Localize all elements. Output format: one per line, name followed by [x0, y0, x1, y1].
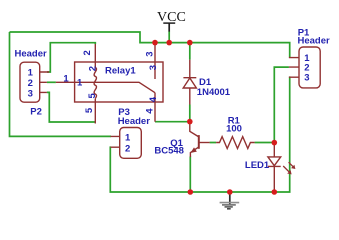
svg-text:2: 2 — [28, 78, 33, 89]
power VCC — [157, 10, 186, 42]
svg-text:Header: Header — [118, 116, 151, 127]
wire P2 pin2 to relay pin1 — [47, 81, 56, 83]
relay Relay1 body — [56, 43, 163, 124]
svg-text:3: 3 — [144, 51, 155, 56]
emitter arrow — [191, 148, 196, 152]
svg-text:1: 1 — [125, 133, 131, 144]
svg-text:4: 4 — [144, 108, 155, 114]
wire D1 vertical segments — [189, 43, 191, 122]
junction dots — [152, 40, 277, 195]
svg-text:1: 1 — [28, 68, 34, 79]
transistor Q1 — [190, 122, 210, 157]
LED LED1 — [268, 143, 294, 192]
svg-text:3: 3 — [148, 65, 159, 70]
header P2 — [20, 62, 49, 102]
node R1 / LED1 / P1 pin2 — [272, 140, 278, 146]
pin 3 lead — [154, 43, 156, 79]
pin 2 lead — [94, 44, 96, 68]
node VCC stem — [166, 40, 172, 46]
wire left vertical to P3 pin1 — [10, 32, 112, 136]
wire VCC rail top-left long segment — [10, 32, 290, 58]
node ground / bottom rail — [227, 189, 233, 195]
svg-text:1: 1 — [77, 77, 83, 88]
svg-text:Relay1: Relay1 — [105, 65, 136, 76]
node LED1 cathode / bottom rail — [272, 189, 278, 195]
svg-text:Header: Header — [298, 36, 331, 47]
svg-text:LED1: LED1 — [245, 160, 270, 171]
svg-text:3: 3 — [28, 88, 33, 99]
pin 1 / armature — [56, 82, 155, 92]
ground — [220, 192, 240, 209]
node D1 top — [187, 40, 193, 46]
wire Q1 base to R1 — [210, 142, 275, 144]
svg-text:5: 5 — [87, 93, 98, 99]
wire P2 pin1 to relay pin2 — [47, 43, 95, 72]
svg-text:100: 100 — [226, 124, 242, 135]
wire Q1 emitter down — [189, 157, 191, 193]
diode D1 — [183, 60, 196, 105]
wire P2 pin3 to relay pin5 — [47, 92, 95, 122]
svg-text:4: 4 — [148, 96, 159, 102]
svg-text:2: 2 — [82, 50, 93, 55]
wire relay pin4 to node D1/Q1 — [155, 121, 190, 123]
wire node R1/LED up to P1 pin2 — [274, 67, 289, 143]
svg-text:BC548: BC548 — [154, 146, 184, 157]
svg-text:P2: P2 — [30, 107, 42, 118]
svg-text:Header: Header — [15, 49, 48, 60]
svg-text:2: 2 — [125, 143, 130, 154]
svg-text:VCC: VCC — [157, 10, 186, 25]
wire P1 pin3 down right side to bottom rail — [110, 77, 289, 192]
svg-text:3: 3 — [304, 73, 309, 84]
svg-text:2: 2 — [87, 66, 98, 71]
header P3 — [111, 128, 142, 159]
pin 5 lead — [94, 99, 96, 124]
node emitter / bottom rail — [188, 189, 194, 195]
resistor R1 — [216, 137, 255, 149]
pin 4 lead — [154, 93, 156, 122]
coil — [94, 68, 96, 99]
LED arrows heads — [291, 165, 295, 169]
svg-text:1N4001: 1N4001 — [197, 87, 231, 98]
node relay pin3 / VCC rail — [152, 40, 158, 46]
svg-text:5: 5 — [84, 107, 95, 113]
header P1 — [289, 47, 320, 88]
node D1 / Q1 collector / relay pin4 — [187, 119, 193, 125]
svg-text:1: 1 — [63, 74, 69, 85]
